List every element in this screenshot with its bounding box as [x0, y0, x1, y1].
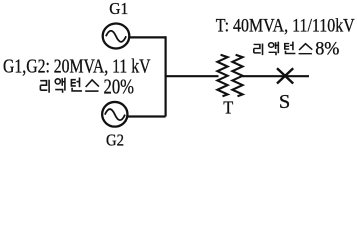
- wire vertical trunk: [165, 36, 167, 116]
- korean text: reactance 8% (리액턴스 8%): [254, 42, 313, 56]
- generator G1 sine: [106, 31, 126, 42]
- svg-text:20%: 20%: [104, 75, 135, 99]
- svg-text:S: S: [279, 91, 290, 113]
- fault mark X at point S: [277, 68, 293, 83]
- generator G1: [103, 24, 130, 49]
- wire G2 to corner: [127, 115, 166, 117]
- transformer T secondary winding: [232, 55, 242, 96]
- korean text: reactance 20% (리액턴스 20%): [40, 78, 99, 93]
- svg-text:T: 40MVA, 11/110kV: T: 40MVA, 11/110kV: [216, 16, 355, 37]
- svg-text:G2: G2: [106, 131, 124, 150]
- wire G1 to corner: [129, 36, 166, 38]
- generator G2 sine: [105, 109, 125, 120]
- svg-text:T: T: [223, 98, 233, 118]
- generator G2: [102, 102, 127, 127]
- transformer T primary winding: [217, 55, 227, 96]
- svg-text:8%: 8%: [315, 39, 339, 60]
- wire bus to transformer: [166, 75, 219, 77]
- svg-text:G1: G1: [109, 0, 128, 18]
- wire bus from transformer to end: [242, 75, 310, 77]
